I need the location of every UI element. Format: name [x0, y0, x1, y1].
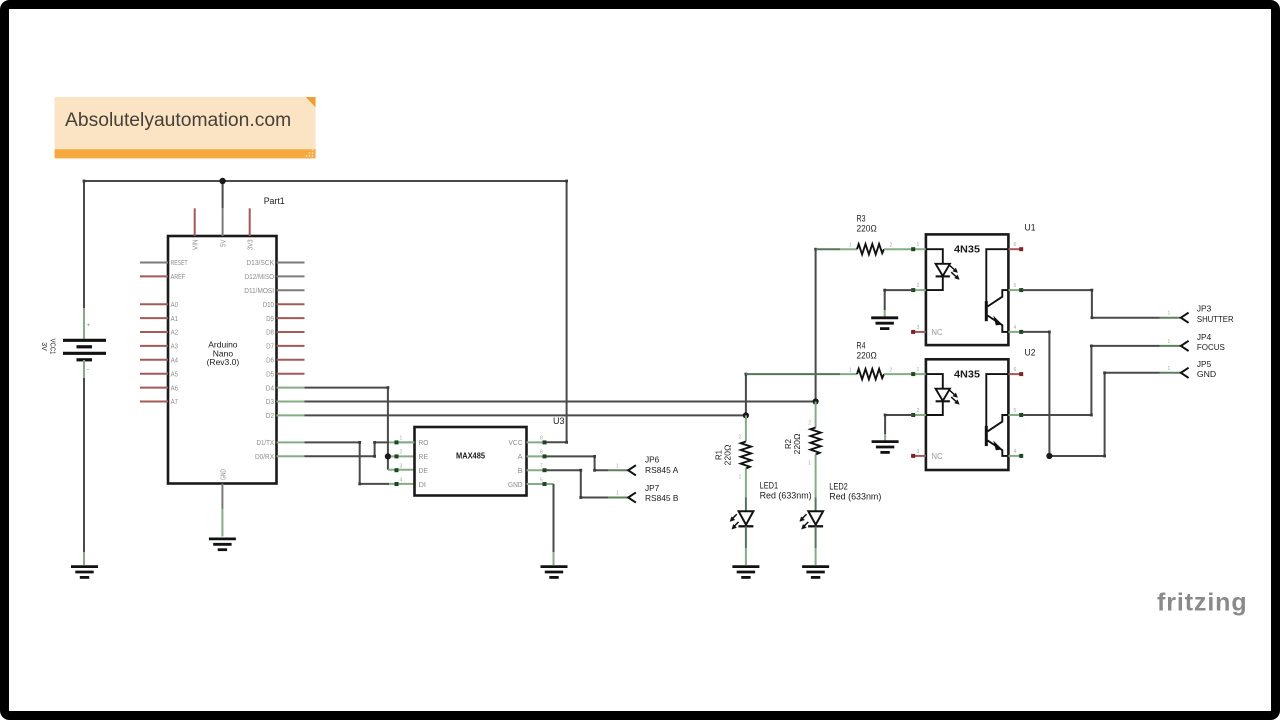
- svg-text:DI: DI: [419, 480, 427, 489]
- wire D2 riser to R4: [745, 373, 748, 416]
- svg-text:JP5: JP5: [1197, 359, 1212, 369]
- svg-text:Red (633nm): Red (633nm): [829, 491, 881, 501]
- svg-text:B: B: [518, 466, 523, 475]
- U1 pin 1 anode: [911, 242, 926, 251]
- svg-text:1: 1: [849, 243, 852, 249]
- svg-text:R4: R4: [857, 341, 866, 351]
- U2 pin 6 base: [1008, 367, 1023, 376]
- svg-text:FOCUS: FOCUS: [1197, 342, 1225, 352]
- pin A1: [140, 314, 178, 323]
- svg-text:A6: A6: [171, 383, 178, 392]
- U2 pin 5 collector: [1008, 408, 1023, 417]
- svg-text:2: 2: [400, 450, 403, 456]
- pin D0/RX: [255, 452, 305, 461]
- svg-text:Part1: Part1: [264, 196, 285, 206]
- wire emitters GND bus: [1023, 331, 1181, 458]
- svg-text:U1: U1: [1025, 223, 1036, 233]
- svg-text:JP6: JP6: [645, 455, 660, 465]
- ground LED2: [802, 567, 829, 578]
- svg-text:D10: D10: [263, 300, 274, 309]
- svg-text:A1: A1: [171, 314, 178, 323]
- svg-text:4N35: 4N35: [954, 369, 980, 381]
- pin AREF: [140, 272, 185, 281]
- U1 pin 4 emitter: [1008, 325, 1023, 334]
- pin DE: [395, 464, 429, 475]
- svg-text:1: 1: [808, 461, 811, 467]
- svg-text:D7: D7: [266, 342, 274, 351]
- svg-text:4N35: 4N35: [954, 244, 980, 256]
- svg-text:A4: A4: [171, 356, 178, 365]
- svg-text:4: 4: [1014, 449, 1017, 455]
- LED2 Red (633nm): [800, 481, 882, 565]
- svg-text:VCC: VCC: [509, 438, 524, 447]
- pin RE: [395, 450, 429, 461]
- svg-text:D4: D4: [266, 383, 274, 392]
- svg-text:2: 2: [808, 421, 811, 427]
- svg-text:U3: U3: [553, 416, 565, 426]
- U1 pin 3 NC: [911, 325, 943, 337]
- svg-text:7: 7: [540, 464, 543, 470]
- pin D8: [266, 328, 304, 337]
- pin D4: [266, 383, 305, 392]
- svg-text:GND: GND: [508, 480, 523, 489]
- svg-text:3: 3: [917, 449, 920, 455]
- svg-text:D0/RX: D0/RX: [255, 452, 274, 461]
- svg-text:1: 1: [1168, 311, 1171, 317]
- resistor R2 220 ohm: [783, 402, 821, 511]
- ground U2: [872, 442, 899, 453]
- pin 5V: [219, 208, 228, 247]
- banner Absolutelyautomation.com: [55, 97, 316, 158]
- svg-text:220Ω: 220Ω: [723, 445, 733, 466]
- svg-text:VIN: VIN: [191, 240, 200, 251]
- pin GND arduino: [218, 469, 227, 537]
- ground arduino: [209, 539, 236, 550]
- svg-text:JP3: JP3: [1197, 304, 1212, 314]
- svg-text:1: 1: [616, 491, 619, 497]
- svg-text:6: 6: [1014, 367, 1017, 373]
- pin A3: [140, 342, 178, 351]
- pin D13/SCK: [246, 258, 304, 267]
- wire A to JP6: [547, 455, 629, 472]
- svg-text:3: 3: [917, 325, 920, 331]
- svg-text:R3: R3: [857, 214, 866, 224]
- label VCC1 3V: [40, 339, 58, 355]
- svg-text:A0: A0: [171, 300, 178, 309]
- svg-text:5: 5: [540, 477, 543, 483]
- ground battery: [71, 567, 98, 578]
- connector JP6 RS845 A: [616, 455, 679, 476]
- wire D3 bus: [305, 401, 816, 403]
- U1 pin 2 cathode wire to ground: [883, 283, 926, 316]
- svg-text:1: 1: [917, 242, 920, 248]
- pin RO: [395, 436, 429, 447]
- svg-text:+: +: [87, 322, 91, 329]
- svg-text:5: 5: [1014, 408, 1017, 414]
- pin B max485: [518, 464, 547, 475]
- svg-text:6: 6: [1014, 242, 1017, 248]
- svg-text:D2: D2: [266, 411, 274, 420]
- svg-text:4: 4: [400, 477, 403, 483]
- svg-text:-: -: [87, 365, 90, 374]
- junction dot 5V rail: [219, 178, 225, 184]
- U2 pin 1 anode: [911, 367, 926, 376]
- wire MAX485 GND to ground: [547, 484, 554, 565]
- svg-text:D5: D5: [266, 369, 274, 378]
- svg-text:A7: A7: [171, 397, 178, 406]
- svg-text:D12/MISO: D12/MISO: [245, 272, 275, 281]
- svg-text:3V3: 3V3: [246, 240, 255, 251]
- pin VCC max485: [509, 436, 547, 447]
- wire VCC top rail: [83, 180, 568, 444]
- wire U1 collector to JP3: [1023, 289, 1181, 319]
- svg-text:GND: GND: [1197, 369, 1216, 379]
- wire D1/TX to DI: [305, 441, 415, 485]
- svg-text:D8: D8: [266, 328, 274, 337]
- battery VCC1: [63, 308, 106, 378]
- svg-text:6: 6: [540, 450, 543, 456]
- svg-text:A5: A5: [171, 369, 178, 378]
- svg-text:8: 8: [540, 436, 543, 442]
- pin D1/TX: [257, 438, 305, 447]
- svg-text:JP4: JP4: [1197, 332, 1212, 342]
- svg-text:220Ω: 220Ω: [857, 224, 877, 234]
- ground LED1: [732, 567, 759, 578]
- resistor R1 220 ohm: [714, 415, 752, 511]
- wire U2 collector to JP4: [1023, 345, 1181, 417]
- svg-text:D13/SCK: D13/SCK: [246, 258, 274, 267]
- svg-text:JP7: JP7: [645, 483, 660, 493]
- U1 pin 6 base: [1008, 242, 1023, 251]
- U1 internal transistor: [986, 249, 1008, 332]
- svg-text:fritzing: fritzing: [1157, 589, 1248, 617]
- svg-text:D6: D6: [266, 356, 274, 365]
- pin D6: [266, 356, 304, 365]
- svg-text:A2: A2: [171, 328, 178, 337]
- U2 pin 4 emitter: [1008, 449, 1023, 458]
- pin RESET: [140, 258, 188, 267]
- svg-text:1: 1: [1168, 339, 1171, 345]
- U2 pin 2 cathode wire to ground: [884, 408, 926, 440]
- svg-text:MAX485: MAX485: [456, 450, 485, 460]
- connector JP5 GND: [1168, 359, 1217, 379]
- svg-text:D9: D9: [266, 314, 274, 323]
- junction dot RE: [385, 453, 391, 459]
- svg-text:DE: DE: [419, 466, 429, 475]
- pin A7: [140, 397, 178, 406]
- svg-text:NC: NC: [932, 452, 943, 461]
- svg-text:LED1: LED1: [760, 481, 779, 491]
- pin D9: [266, 314, 304, 323]
- svg-text:NC: NC: [932, 328, 943, 337]
- svg-text:220Ω: 220Ω: [857, 351, 877, 361]
- ground MAX485: [541, 567, 568, 578]
- U2 internal transistor: [986, 374, 1008, 456]
- pin D10: [263, 300, 305, 309]
- pin 3V3: [246, 208, 255, 250]
- U1 internal LED: [926, 249, 959, 290]
- connector JP3 SHUTTER: [1168, 304, 1234, 324]
- svg-text:2: 2: [917, 408, 920, 414]
- connector JP4 FOCUS: [1168, 332, 1226, 352]
- wire D4 to RE/DE: [305, 386, 415, 470]
- junction dot emitter bus: [1046, 453, 1052, 459]
- pin D7: [266, 342, 304, 351]
- wire D3 riser to R3: [814, 248, 817, 402]
- U2 internal LED: [926, 374, 959, 415]
- svg-text:2: 2: [890, 243, 893, 249]
- pin D5: [266, 369, 304, 378]
- svg-text:Red (633nm): Red (633nm): [760, 491, 812, 501]
- svg-text:1: 1: [917, 367, 920, 373]
- svg-text:GND: GND: [218, 469, 227, 480]
- svg-text:2: 2: [917, 283, 920, 289]
- ground U1: [871, 318, 898, 329]
- pin A0: [140, 300, 178, 309]
- U1 pin 5 collector: [1008, 283, 1023, 292]
- svg-text:AREF: AREF: [171, 272, 186, 281]
- MAX485 U3: [415, 416, 565, 496]
- svg-text:1: 1: [739, 475, 742, 481]
- wire B to JP7: [547, 469, 629, 499]
- pin VIN: [191, 208, 200, 250]
- svg-text:D3: D3: [266, 397, 274, 406]
- connector JP7 RS845 B: [616, 483, 679, 503]
- svg-text:RS845 A: RS845 A: [645, 465, 679, 475]
- svg-text:RESET: RESET: [171, 258, 188, 267]
- svg-text:2: 2: [890, 368, 893, 374]
- opto-coupler U1 4N35: [926, 223, 1036, 346]
- svg-text:3V: 3V: [40, 342, 49, 351]
- svg-text:Absolutelyautomation.com: Absolutelyautomation.com: [65, 110, 291, 131]
- svg-text:D11/MOSI: D11/MOSI: [244, 286, 274, 295]
- pin D12/MISO: [245, 272, 305, 281]
- pin D3: [266, 397, 305, 406]
- pin A max485: [518, 450, 547, 461]
- svg-text:5: 5: [1014, 283, 1017, 289]
- svg-text:1: 1: [400, 436, 403, 442]
- pin A4: [140, 356, 178, 365]
- svg-text:1: 1: [1168, 366, 1171, 372]
- svg-text:D1/TX: D1/TX: [257, 438, 275, 447]
- wire D2 bus: [305, 414, 746, 416]
- Arduino Nano Part1: [168, 196, 285, 483]
- pin A5: [140, 369, 178, 378]
- svg-text:A: A: [518, 452, 523, 461]
- pin D11/MOSI: [244, 286, 304, 295]
- svg-text:2: 2: [739, 435, 742, 441]
- LED1 Red (633nm): [730, 481, 812, 565]
- resistor R3 220 ohm: [816, 214, 911, 255]
- svg-text:U2: U2: [1025, 348, 1036, 358]
- pin D2: [266, 411, 305, 420]
- opto-coupler U2 4N35: [926, 348, 1036, 471]
- U2 pin 3 NC: [911, 449, 943, 461]
- svg-text:1: 1: [849, 368, 852, 374]
- svg-text:SHUTTER: SHUTTER: [1197, 314, 1234, 324]
- wire battery to ground: [83, 378, 85, 552]
- pin DI: [395, 477, 427, 489]
- svg-text:220Ω: 220Ω: [792, 434, 802, 455]
- resistor R4 220 ohm: [746, 341, 911, 380]
- svg-text:LED2: LED2: [829, 481, 848, 491]
- pin A6: [140, 383, 178, 392]
- pin A2: [140, 328, 178, 337]
- svg-text:4: 4: [1014, 325, 1017, 331]
- junction dot D3/R2: [813, 398, 819, 404]
- pin GND max485: [508, 477, 547, 489]
- svg-text:5V: 5V: [219, 239, 228, 247]
- svg-text:RS845 B: RS845 B: [645, 493, 679, 503]
- svg-text:RE: RE: [419, 452, 429, 461]
- svg-text:RO: RO: [419, 438, 429, 447]
- svg-text:(Rev3.0): (Rev3.0): [207, 357, 240, 367]
- svg-text:A3: A3: [171, 342, 178, 351]
- wire D0/RX to RO: [305, 441, 415, 458]
- junction dot D2/R1: [743, 412, 749, 418]
- svg-text:3: 3: [400, 464, 403, 470]
- svg-text:1: 1: [616, 463, 619, 469]
